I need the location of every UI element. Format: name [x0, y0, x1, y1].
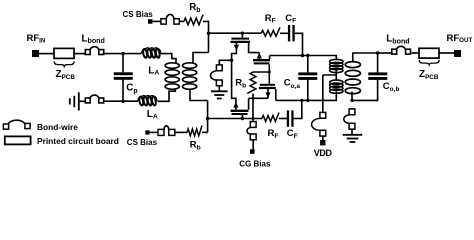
node A (input top) [121, 52, 124, 55]
node gate-bottom junction [206, 117, 209, 120]
wire Rb bottom to vert [202, 131, 208, 133]
transistor M4 CG-b [259, 85, 276, 101]
wire bond to CG pad [252, 140, 254, 149]
impedance Z_PCB input [54, 48, 74, 58]
node gate-top junction [207, 32, 210, 35]
label C_o,b [383, 81, 400, 93]
impedance Z_PCB output [419, 48, 439, 58]
inductor L_A top [142, 48, 161, 58]
svg-text:Cp: Cp [126, 83, 137, 95]
wire secondary bottom rail [352, 99, 378, 101]
bond-wire CS bias bottom [158, 126, 175, 136]
label C_o,a [284, 78, 301, 90]
wire T1 secondary bottom lead [190, 89, 208, 101]
label L_bond input [82, 33, 105, 45]
transformer T1 secondary coil [183, 63, 197, 90]
bond-wire output ground [344, 109, 355, 129]
capacitor C_F bottom [287, 110, 294, 126]
label C_F top [285, 13, 296, 25]
node CS-b gate tap [241, 117, 244, 120]
svg-text:LA: LA [148, 65, 159, 76]
transistor M3 CS-b [231, 102, 249, 119]
node feedback-a top [301, 54, 304, 57]
node Coa bottom [306, 99, 309, 102]
label RFin [27, 33, 46, 44]
wire bondwire2 to node B [104, 100, 137, 102]
wire bottom vertical [207, 101, 209, 133]
wire output rail bottom y100 [276, 91, 337, 100]
svg-text:VDD: VDD [314, 148, 333, 158]
wire VDD vertical [322, 75, 324, 112]
label Z_PCB input [56, 69, 76, 81]
svg-text:CF: CF [285, 13, 296, 25]
pad RFout [454, 50, 461, 57]
transistor M2 CG-a [253, 53, 270, 64]
pad CG bias [250, 149, 255, 154]
label RFout [447, 33, 473, 44]
wire T2 secondary bottom lead [351, 92, 353, 101]
wire T2 secondary top lead [353, 53, 377, 62]
label R_b center [235, 78, 246, 90]
wire M2 gate lead down [268, 64, 270, 83]
label CS Bias bottom [127, 138, 158, 147]
bond-wire input bottom [85, 95, 103, 103]
svg-text:Lbond: Lbond [386, 34, 409, 46]
label R_F top [265, 13, 276, 25]
legend label Bond-wire [37, 122, 78, 132]
resistor R_b bottom [187, 126, 202, 136]
node T2 secondary bottom [350, 99, 353, 102]
transistor M1 CS-a gate lead [241, 33, 243, 37]
wire bond to Zpcb out [412, 52, 420, 54]
node M1 source junction [230, 59, 233, 62]
inductor L_A bottom [138, 96, 157, 106]
label C_F bottom [287, 128, 298, 140]
pad CS bias bottom [145, 130, 149, 134]
wire CF to output node top [295, 33, 303, 55]
pad CS bias top [148, 19, 153, 24]
node B (input bottom) [121, 100, 124, 103]
svg-text:ZPCB: ZPCB [56, 69, 76, 81]
svg-text:Co,a: Co,a [284, 78, 301, 90]
resistor R_F top [261, 27, 280, 36]
wire source node to bondwire [219, 60, 231, 65]
wire out to bond [378, 52, 392, 54]
svg-text:Lbond: Lbond [82, 33, 105, 45]
legend PCB symbol [5, 136, 31, 144]
label R_b top [189, 2, 200, 14]
svg-text:RFIN: RFIN [27, 33, 46, 44]
bond-wire CS bias top [161, 14, 179, 24]
resistor R_b top [184, 15, 203, 25]
svg-text:CS Bias: CS Bias [127, 138, 158, 147]
wire bond to ground right [351, 129, 353, 134]
bond-wire input (squares+arc) [85, 47, 103, 55]
wire bond to ground [218, 86, 220, 91]
label L_A bottom [147, 109, 158, 120]
label R_F bottom [268, 128, 279, 140]
svg-text:Printed circuit board: Printed circuit board [37, 136, 119, 146]
transformer T2 primary upper winding [330, 59, 343, 72]
node feedback-b bottom [300, 99, 303, 102]
bond-wire output [392, 46, 411, 54]
wire CFb to output node bottom [294, 100, 302, 118]
transformer T1 primary coil [165, 63, 179, 90]
wire Rb to vert [203, 21, 209, 52]
capacitor C_p [114, 54, 133, 102]
svg-text:CS Bias: CS Bias [123, 10, 154, 19]
ground input (sideways) [70, 92, 79, 110]
bond-wire VDD [312, 112, 326, 136]
wire output rail top y55 [270, 56, 337, 60]
wire LA2 to transformer1 primary bottom [158, 89, 176, 101]
wire gnd to bondwire2 [79, 100, 85, 102]
node output [376, 51, 379, 54]
bond-wire CG bias [247, 122, 256, 140]
label L_bond output [386, 34, 409, 46]
wire RFin pad to Zpcb [39, 53, 54, 55]
wire pad to bond bottom [150, 131, 159, 133]
svg-text:Bond-wire: Bond-wire [37, 122, 78, 132]
legend label Printed circuit board [37, 136, 119, 146]
transistor M1 CS-a [231, 39, 260, 61]
node CS-a gate tap [241, 32, 244, 35]
svg-text:CF: CF [287, 128, 298, 140]
label Z_PCB output [419, 69, 439, 81]
wire Zpcb to RFout pad [439, 52, 454, 54]
svg-text:Rb: Rb [189, 2, 200, 14]
ground chip left [211, 91, 228, 98]
label L_A top [148, 65, 159, 76]
resistor R_b center [247, 72, 256, 93]
wire top rail y33 [209, 32, 262, 34]
svg-text:CG Bias: CG Bias [239, 160, 271, 169]
wire Zpcb to bondwire [74, 53, 85, 55]
wire M3 drain to M4 source [249, 98, 268, 109]
wire M1 source down to M3 [232, 60, 236, 109]
label VDD [314, 148, 333, 158]
wire bond to Rb bottom [175, 131, 188, 133]
label R_b bottom [190, 140, 201, 152]
node Coa top [306, 54, 309, 57]
svg-text:RF: RF [268, 128, 279, 140]
label C_p [126, 83, 137, 95]
capacitor C_o,a [298, 56, 317, 101]
transformer T2 primary lower winding [330, 80, 343, 93]
legend bond-wire symbol [3, 120, 30, 129]
pad RFin [32, 50, 39, 57]
resistor R_F bottom [262, 113, 279, 122]
capacitor C_F top [288, 25, 295, 41]
transformer T2 secondary coil [345, 62, 360, 94]
brace under Z_PCB output [419, 60, 439, 65]
svg-text:Rb: Rb [235, 78, 246, 90]
wire bond to Rb top [179, 20, 184, 22]
ground output [343, 135, 363, 142]
wire bottom rail y118 [208, 118, 262, 120]
wire T2 center tap [323, 70, 337, 80]
svg-text:LA: LA [147, 109, 158, 120]
wire pad to bond (top bias) [153, 20, 161, 22]
bond-wire source degeneration [210, 65, 222, 86]
brace under Z_PCB input [54, 61, 74, 66]
wire T1 secondary top lead [193, 53, 209, 64]
pad VDD [320, 140, 325, 145]
label CG Bias [239, 160, 271, 169]
wire bondwire to node A [104, 53, 142, 55]
wire Rb center to CG bias [252, 94, 255, 122]
svg-text:RFOUT: RFOUT [447, 33, 473, 44]
svg-text:ZPCB: ZPCB [419, 69, 439, 81]
wire bond to VDD pad [322, 136, 324, 140]
wire Rb-center tap [253, 71, 271, 74]
wire RF to CF top [280, 32, 288, 34]
svg-text:RF: RF [265, 13, 276, 25]
capacitor C_o,b [368, 53, 387, 100]
svg-text:Rb: Rb [190, 140, 201, 152]
wire LA to transformer1 primary top [160, 54, 176, 64]
wire RFb to CFb [279, 118, 287, 120]
svg-text:Co,b: Co,b [383, 81, 400, 93]
label CS Bias top [123, 10, 154, 19]
